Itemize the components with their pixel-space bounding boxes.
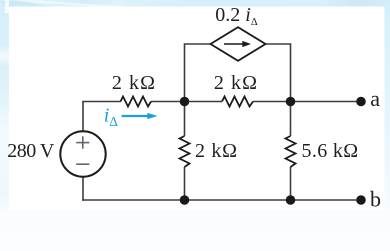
svg-text:2 kΩ: 2 kΩ: [195, 140, 238, 162]
svg-text:5.6 kΩ: 5.6 kΩ: [302, 140, 359, 162]
node 2 junction dot: [286, 97, 296, 107]
svg-text:a: a: [370, 86, 380, 111]
wire: top rail left segment to resistor R1: [82, 101, 120, 103]
svg-text:2 kΩ: 2 kΩ: [214, 72, 258, 94]
terminal b dot: [356, 195, 366, 205]
wire: node 2 down to resistor R4: [290, 102, 292, 137]
dependent current source U1 diamond: [211, 27, 266, 61]
svg-text:2 kΩ: 2 kΩ: [112, 72, 156, 94]
wire: resistor R4 down to bottom rail: [290, 167, 292, 200]
wire: source bottom to bottom rail: [82, 176, 84, 201]
current direction arrow for i-delta: [122, 113, 158, 119]
wire: node 1 down to resistor R3: [184, 102, 186, 137]
voltage source minus sign: [76, 163, 89, 165]
bottom rail junction dot under node 2: [286, 195, 296, 205]
wire: top rail from R2 through node 2 to terminal a: [253, 101, 361, 103]
resistor R3 2 kOhm vertical: [180, 136, 190, 167]
svg-text:b: b: [370, 187, 381, 212]
dependent source arrow: [224, 41, 251, 47]
voltage source V1 circle: [60, 131, 105, 176]
svg-text:280 V: 280 V: [7, 140, 55, 162]
bottom rail junction dot under node 1: [180, 195, 190, 205]
resistor R2 2 kOhm horizontal: [222, 97, 253, 107]
wire: dependent source right terminal down to node 2: [266, 44, 291, 102]
current label i-delta: [104, 105, 118, 129]
wire: bottom rail to terminal b: [82, 199, 361, 201]
wire: node 1 up and right to dependent source left terminal: [185, 44, 211, 102]
wire: resistor R3 down to bottom rail: [184, 167, 186, 200]
voltage source plus sign: [76, 136, 89, 148]
svg-text:Δ: Δ: [109, 114, 118, 129]
resistor R1 2 kOhm horizontal: [121, 97, 152, 107]
node 1 junction dot: [180, 97, 190, 107]
wire: source top to top rail: [82, 102, 84, 133]
resistor R4 5.6 kOhm vertical: [286, 136, 296, 167]
wire: top rail from R1 through node 1 to resistor R2: [151, 101, 222, 103]
terminal a dot: [356, 97, 366, 107]
